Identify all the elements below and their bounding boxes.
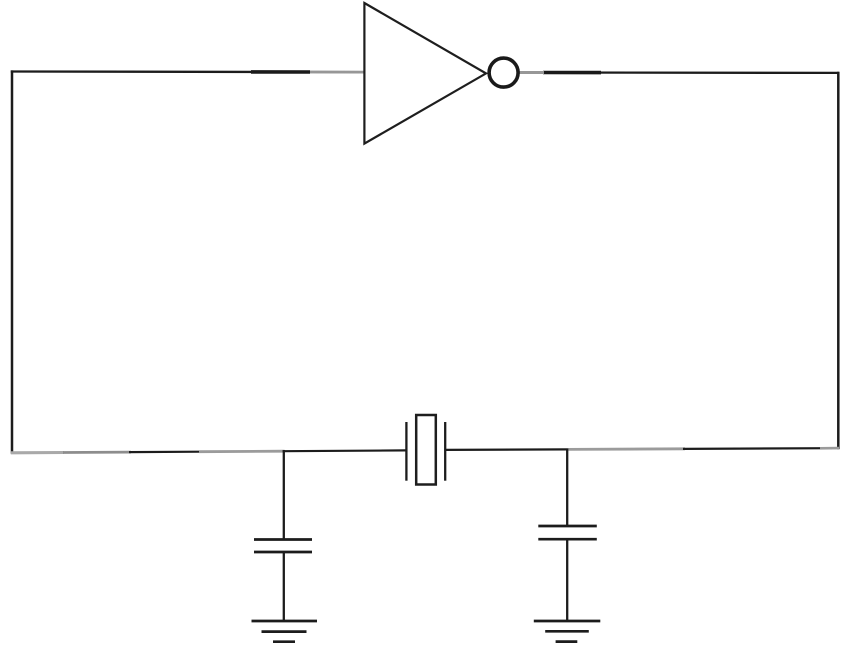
wire inverter input pin stub [310, 71, 366, 74]
wire bottom left gray segment (light) [11, 451, 64, 454]
crystal X1 body rectangle [416, 415, 436, 485]
capacitor C1 top plate [254, 538, 312, 541]
crystal X1 right plate [444, 422, 446, 481]
wire capacitor C2 to ground [566, 540, 568, 621]
wire crystal right to node B [445, 448, 568, 451]
inverter U1 triangle [364, 3, 486, 144]
wire bottom right gray corner stub [820, 447, 839, 450]
ground (right) [534, 621, 601, 642]
wire bottom left gray segment (dark) [63, 451, 131, 454]
wire top left horizontal [11, 70, 366, 73]
wire right vertical [837, 72, 840, 450]
wire bottom left black segment [129, 451, 200, 454]
wire bottom gray segment right of node B [567, 447, 685, 450]
wire node B down to capacitor C2 [566, 449, 568, 526]
wire capacitor C1 to ground [283, 553, 285, 621]
capacitor C2 bottom plate [538, 538, 597, 541]
wire top right overlap segment [543, 71, 601, 75]
inverter U1 inversion bubble [489, 58, 518, 87]
capacitor C1 bottom plate [254, 551, 312, 554]
wire left vertical [11, 70, 14, 453]
wire node A down to capacitor C1 [283, 450, 285, 539]
wire bottom right black segment [683, 447, 832, 450]
wire top right horizontal [519, 71, 839, 74]
capacitor C2 top plate [538, 525, 597, 528]
wire inverter output pin stub [519, 71, 544, 74]
node A junction (left cap / crystal) [283, 449, 407, 452]
crystal X1 left plate [405, 422, 407, 481]
wire top left overlap segment [251, 70, 310, 74]
ground (left) [252, 621, 318, 642]
wire bottom gray stub into node A [199, 450, 285, 453]
